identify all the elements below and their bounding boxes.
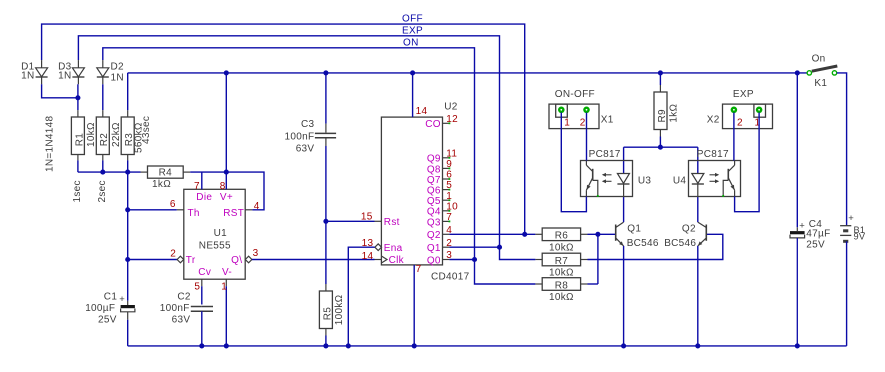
wire Q0 out bbox=[449, 259, 474, 261]
diode D3 bbox=[77, 60, 79, 68]
pin 5 Q6 bbox=[443, 189, 450, 191]
svg-text:EXP: EXP bbox=[733, 89, 754, 100]
pin 15 Rst bbox=[375, 220, 382, 222]
svg-text:Q2: Q2 bbox=[682, 223, 696, 234]
wire R1 bottom bbox=[77, 160, 79, 172]
optocoupler U3 PC817 bbox=[581, 161, 633, 197]
wire Q1 out bbox=[449, 246, 499, 248]
capacitor C3 100nF bbox=[325, 73, 327, 124]
svg-text:Tr: Tr bbox=[186, 255, 196, 266]
svg-text:100nF: 100nF bbox=[160, 303, 190, 314]
svg-text:2sec: 2sec bbox=[97, 180, 108, 202]
svg-text:+: + bbox=[119, 294, 125, 305]
svg-text:1kΩ: 1kΩ bbox=[669, 103, 680, 122]
svg-text:R1: R1 bbox=[74, 133, 85, 147]
svg-text:V+: V+ bbox=[220, 192, 233, 203]
svg-text:10kΩ: 10kΩ bbox=[549, 268, 574, 279]
wire ON net bbox=[103, 48, 475, 260]
pin 12 CO bbox=[443, 122, 450, 124]
pin 7 V- bottom bbox=[413, 265, 415, 346]
svg-text:1N=1N4148: 1N=1N4148 bbox=[44, 116, 55, 172]
svg-text:Q1: Q1 bbox=[427, 243, 441, 254]
svg-text:C2: C2 bbox=[177, 291, 191, 302]
svg-text:EXP: EXP bbox=[402, 25, 423, 36]
battery B1 9V bbox=[840, 225, 851, 227]
svg-text:25V: 25V bbox=[98, 314, 117, 325]
pin 7 Die bbox=[201, 172, 203, 189]
svg-text:1: 1 bbox=[221, 282, 227, 293]
svg-text:BC546: BC546 bbox=[627, 238, 659, 249]
svg-text:Q0: Q0 bbox=[427, 255, 441, 266]
svg-text:47µF: 47µF bbox=[806, 229, 830, 240]
svg-text:63V: 63V bbox=[172, 314, 191, 325]
svg-text:OFF: OFF bbox=[402, 14, 423, 25]
svg-text:6: 6 bbox=[446, 170, 452, 181]
wire R7 to Q2 base bbox=[588, 234, 723, 259]
svg-text:9: 9 bbox=[446, 159, 452, 170]
svg-text:U3: U3 bbox=[638, 176, 652, 187]
svg-text:Q2: Q2 bbox=[427, 230, 441, 241]
pin 5 Cv bbox=[201, 279, 203, 286]
resistor R5 100k bbox=[325, 284, 327, 291]
svg-text:1N: 1N bbox=[111, 73, 124, 84]
wire Q2 to R6 bbox=[449, 233, 535, 235]
svg-text:RST: RST bbox=[223, 208, 244, 219]
svg-text:7: 7 bbox=[194, 181, 200, 192]
svg-text:2: 2 bbox=[737, 117, 743, 128]
svg-text:CD4017: CD4017 bbox=[431, 272, 470, 283]
svg-text:63V: 63V bbox=[296, 143, 315, 154]
resistor R8 10k bbox=[535, 283, 542, 285]
svg-text:X2: X2 bbox=[707, 115, 720, 126]
svg-text:Rst: Rst bbox=[384, 217, 400, 228]
svg-text:25V: 25V bbox=[806, 239, 825, 250]
svg-text:Q4: Q4 bbox=[427, 207, 441, 218]
svg-text:Q9: Q9 bbox=[427, 154, 441, 165]
svg-text:ON-OFF: ON-OFF bbox=[555, 89, 595, 100]
svg-text:1: 1 bbox=[446, 191, 452, 202]
svg-text:+: + bbox=[799, 220, 805, 231]
svg-text:PC817: PC817 bbox=[697, 149, 729, 160]
wire main timing column bbox=[127, 160, 129, 300]
wire EXP net bbox=[78, 36, 499, 247]
svg-text:V-: V- bbox=[222, 267, 232, 278]
svg-text:Q\: Q\ bbox=[231, 255, 242, 266]
capacitor C1 100uF electrolytic bbox=[127, 301, 129, 305]
wire R3 top drop bbox=[127, 73, 129, 110]
svg-text:Th: Th bbox=[188, 208, 200, 219]
svg-text:C3: C3 bbox=[301, 119, 315, 130]
resistor R6 10k bbox=[535, 233, 542, 235]
svg-text:Q3: Q3 bbox=[427, 217, 441, 228]
svg-text:R2: R2 bbox=[99, 133, 110, 147]
svg-text:43sec: 43sec bbox=[141, 116, 152, 144]
svg-text:1N: 1N bbox=[21, 71, 34, 82]
svg-text:1: 1 bbox=[564, 117, 570, 128]
svg-text:Die: Die bbox=[196, 192, 212, 203]
pin 11 Q9 bbox=[443, 157, 450, 159]
svg-text:10kΩ: 10kΩ bbox=[549, 242, 574, 253]
svg-text:C1: C1 bbox=[104, 291, 118, 302]
pin 1 V- bbox=[225, 279, 227, 286]
svg-text:14: 14 bbox=[416, 106, 428, 117]
svg-text:7: 7 bbox=[446, 212, 452, 223]
diode D2 bbox=[102, 60, 104, 68]
svg-text:X1: X1 bbox=[601, 115, 614, 126]
wire R2 bottom bbox=[102, 160, 104, 172]
svg-text:10kΩ: 10kΩ bbox=[549, 292, 574, 303]
wire K1 to B1 bbox=[837, 73, 847, 226]
svg-text:BC546: BC546 bbox=[664, 238, 696, 249]
resistor R4 1k bbox=[141, 171, 148, 173]
svg-text:Q8: Q8 bbox=[427, 164, 441, 175]
pad X1-1 bbox=[558, 107, 565, 114]
capacitor C2 100nF bbox=[202, 306, 213, 308]
svg-text:R7: R7 bbox=[555, 256, 569, 267]
svg-text:5: 5 bbox=[194, 282, 200, 293]
resistor R9 1k bbox=[659, 73, 661, 85]
pin 3 Q0 bbox=[443, 259, 450, 261]
svg-text:2: 2 bbox=[170, 249, 176, 260]
svg-text:Q5: Q5 bbox=[427, 196, 441, 207]
svg-text:R6: R6 bbox=[555, 231, 569, 242]
svg-text:R8: R8 bbox=[555, 280, 569, 291]
wire X2-1 to U4 emitter bbox=[735, 113, 760, 212]
pin 10 Q4 bbox=[443, 210, 450, 212]
svg-text:Ena: Ena bbox=[384, 243, 403, 254]
svg-text:U2: U2 bbox=[444, 101, 458, 112]
svg-text:14: 14 bbox=[362, 251, 374, 262]
svg-text:6: 6 bbox=[170, 199, 176, 210]
pin 8 V+ bbox=[225, 73, 227, 189]
svg-text:1N: 1N bbox=[58, 71, 71, 82]
node junction D1-D3 bbox=[77, 84, 79, 110]
wire D2 to R2 bbox=[102, 84, 104, 110]
svg-text:4: 4 bbox=[254, 201, 260, 212]
svg-text:R9: R9 bbox=[657, 109, 668, 123]
svg-text:1kΩ: 1kΩ bbox=[152, 179, 171, 190]
svg-text:PC817: PC817 bbox=[589, 149, 621, 160]
svg-text:Q7: Q7 bbox=[427, 175, 441, 186]
svg-text:Clk: Clk bbox=[389, 255, 405, 266]
wire C3 to Rst bbox=[325, 146, 327, 284]
pin 3 Q out bbox=[245, 256, 252, 263]
wire OFF net bbox=[42, 24, 525, 234]
svg-text:100nF: 100nF bbox=[285, 131, 315, 142]
svg-text:8: 8 bbox=[220, 181, 226, 192]
wire B1 to ground rail bbox=[846, 241, 848, 346]
svg-text:10kΩ: 10kΩ bbox=[86, 122, 97, 147]
op-amp U1 NE555 body bbox=[184, 189, 245, 279]
IC U2 CD4017 body bbox=[381, 117, 442, 265]
pin 2 Tr bbox=[128, 259, 177, 261]
wire ON jog to R8 bbox=[475, 260, 536, 285]
pin 13 Ena bbox=[375, 244, 382, 251]
resistor R2 22k bbox=[102, 110, 104, 117]
svg-text:+: + bbox=[848, 213, 854, 224]
svg-text:Q6: Q6 bbox=[427, 186, 441, 197]
svg-text:R4: R4 bbox=[159, 168, 173, 179]
diode D1 bbox=[41, 60, 43, 68]
pin 1 Q5 bbox=[443, 199, 450, 201]
pin 14 top clock feed bbox=[412, 73, 414, 117]
resistor R3 560k bbox=[127, 110, 129, 117]
wire X1-2 to U3 collector bbox=[586, 113, 588, 161]
wire EXP jog to R7 bbox=[500, 247, 536, 259]
svg-text:7: 7 bbox=[416, 264, 422, 275]
svg-text:Cv: Cv bbox=[198, 267, 211, 278]
svg-text:On: On bbox=[812, 53, 826, 64]
optocoupler U4 PC817 bbox=[689, 161, 741, 197]
wire main V+ rail bbox=[128, 72, 808, 74]
wire R6 to Q1 base bbox=[588, 233, 616, 235]
svg-text:D2: D2 bbox=[111, 61, 125, 72]
wire X1-1 to U3 emitter bbox=[561, 113, 586, 212]
transistor Q2 BC546 bbox=[705, 225, 707, 241]
svg-text:CO: CO bbox=[425, 119, 441, 130]
pin 4 RST jog bbox=[226, 172, 264, 210]
svg-text:K1: K1 bbox=[814, 78, 827, 89]
svg-text:U1: U1 bbox=[214, 228, 228, 239]
wire R8 to R6 junction bbox=[588, 283, 598, 285]
pin 7 Q3 bbox=[443, 220, 450, 222]
svg-text:U4: U4 bbox=[673, 176, 687, 187]
capacitor C4 47uF bbox=[796, 73, 798, 227]
resistor R7 10k bbox=[535, 259, 542, 261]
pad X2-2 bbox=[731, 107, 738, 114]
svg-text:5: 5 bbox=[446, 180, 452, 191]
wire D1 to D3 junction bbox=[42, 84, 78, 98]
pad X2-1 bbox=[756, 107, 763, 114]
pin 4 Q2 bbox=[443, 233, 450, 235]
svg-text:R5: R5 bbox=[322, 307, 333, 321]
pin 14 Clk bbox=[375, 259, 382, 261]
resistor R1 10k bbox=[77, 110, 79, 117]
pad X1-2 bbox=[583, 107, 590, 114]
svg-text:1sec: 1sec bbox=[72, 180, 83, 202]
svg-text:100kΩ: 100kΩ bbox=[334, 294, 345, 325]
pin 6 Q7 bbox=[443, 178, 450, 180]
wire ground rail bbox=[128, 345, 847, 347]
svg-text:15: 15 bbox=[361, 211, 373, 222]
pin 6 Th bbox=[177, 209, 184, 211]
transistor Q1 BC546 bbox=[615, 225, 617, 241]
svg-text:3: 3 bbox=[253, 248, 259, 259]
svg-text:11: 11 bbox=[446, 148, 457, 159]
pin 9 Q8 bbox=[443, 167, 450, 169]
svg-text:100µF: 100µF bbox=[85, 303, 115, 314]
svg-text:2: 2 bbox=[580, 117, 586, 128]
svg-text:22kΩ: 22kΩ bbox=[111, 122, 122, 147]
pin 2 Q1 bbox=[443, 246, 450, 248]
svg-text:NE555: NE555 bbox=[199, 241, 231, 252]
svg-text:10: 10 bbox=[446, 201, 458, 212]
svg-text:ON: ON bbox=[403, 37, 419, 48]
svg-text:13: 13 bbox=[362, 238, 374, 249]
svg-text:Q1: Q1 bbox=[627, 223, 641, 234]
svg-text:12: 12 bbox=[446, 114, 458, 125]
wire R4 to V+ column bbox=[190, 171, 226, 173]
wire timing junction row bbox=[78, 171, 141, 173]
svg-text:9V: 9V bbox=[854, 232, 866, 242]
wire X2-2 to U4 collector bbox=[733, 113, 735, 161]
wire LED anode line bbox=[624, 146, 698, 148]
